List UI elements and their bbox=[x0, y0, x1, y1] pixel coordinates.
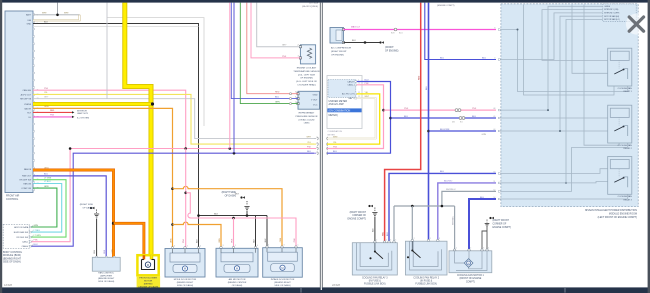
inline connector on BLU bbox=[459, 117, 462, 120]
faint compartment outline bbox=[33, 26, 199, 28]
svg-text:1: 1 bbox=[235, 245, 236, 247]
svg-text:MOTOR FAN (LO): MOTOR FAN (LO) bbox=[604, 18, 620, 21]
wire COMP ON GRN to BCM bbox=[31, 188, 57, 227]
svg-text:REFRIGERANT: REFRIGERANT bbox=[299, 112, 315, 115]
svg-text:WHT: WHT bbox=[64, 12, 69, 14]
svg-text:SIDE OF DASH): SIDE OF DASH) bbox=[274, 284, 290, 287]
svg-text:E28: E28 bbox=[391, 32, 394, 34]
svg-text:GRY: GRY bbox=[282, 45, 287, 47]
wire CAN-H BLU bus bbox=[31, 153, 314, 246]
svg-text:(RIGHT FRONT: (RIGHT FRONT bbox=[350, 212, 367, 214]
svg-text:(ON A/C LIQUID: (ON A/C LIQUID bbox=[298, 118, 314, 121]
junction ORN branch nodes bbox=[171, 187, 174, 190]
wire BLK stub to intake door motor bbox=[266, 216, 268, 248]
svg-text:PNK: PNK bbox=[44, 88, 49, 90]
svg-text:5: 5 bbox=[395, 240, 396, 242]
wire compressor BLK ground bbox=[344, 42, 381, 44]
svg-text:ILL SYSTEM: ILL SYSTEM bbox=[77, 117, 89, 119]
svg-text:ORN: ORN bbox=[112, 249, 114, 254]
svg-text:OF ENGINE): OF ENGINE) bbox=[331, 54, 344, 56]
svg-text:A/C PD CUT: A/C PD CUT bbox=[342, 93, 355, 96]
wire BLU relay control from top bbox=[425, 3, 496, 60]
svg-text:PNK: PNK bbox=[34, 240, 39, 242]
svg-text:PNK: PNK bbox=[404, 108, 409, 110]
svg-text:COOLING FAN MOTOR 1: COOLING FAN MOTOR 1 bbox=[457, 274, 484, 277]
svg-text:(RIGHT FRONT: (RIGHT FRONT bbox=[493, 220, 510, 222]
svg-text:INTERIOR: INTERIOR bbox=[77, 110, 87, 112]
svg-text:VSENS: VSENS bbox=[24, 104, 32, 106]
svg-text:(FRONT: (FRONT bbox=[385, 47, 394, 49]
svg-text:PNK: PNK bbox=[183, 238, 185, 243]
svg-text:COMPT): COMPT) bbox=[466, 281, 475, 283]
svg-text:LINE): LINE) bbox=[304, 123, 310, 125]
wire PNK riser to top edge bbox=[229, 3, 231, 149]
IPDM E/R module box bbox=[501, 4, 638, 207]
wire FAN FB ORN thick bbox=[33, 170, 114, 257]
engine coolant temperature sensor box bbox=[300, 45, 315, 64]
wire BLU riser to top edge bbox=[233, 3, 235, 154]
svg-text:3: 3 bbox=[174, 245, 175, 247]
svg-text:2: 2 bbox=[376, 240, 377, 242]
svg-text:52: 52 bbox=[493, 190, 495, 192]
svg-text:(BEHIND RIGHT: (BEHIND RIGHT bbox=[274, 282, 291, 284]
svg-text:1: 1 bbox=[430, 238, 431, 240]
svg-text:BLU: BLU bbox=[104, 249, 106, 253]
svg-text:51: 51 bbox=[493, 181, 495, 183]
svg-text:BLWR FAN SW: BLWR FAN SW bbox=[14, 231, 28, 234]
svg-text:COOLING FAN: COOLING FAN bbox=[618, 87, 633, 90]
body control module BCM dashed box bbox=[3, 224, 29, 248]
svg-text:A/C COMPRESSOR: A/C COMPRESSOR bbox=[331, 47, 351, 50]
svg-text:1/1528: 1/1528 bbox=[4, 283, 12, 287]
svg-text:RELAY 1: RELAY 1 bbox=[623, 90, 632, 93]
ground marker front of engine bbox=[379, 41, 381, 43]
svg-text:FAN CONTROL: FAN CONTROL bbox=[98, 271, 114, 274]
junction FAN FB node bbox=[112, 222, 115, 225]
svg-text:IGN: IGN bbox=[27, 20, 31, 22]
svg-text:BLK: BLK bbox=[214, 213, 219, 215]
wire PNK stub to air mix motor bbox=[233, 218, 235, 248]
page edge stubs right page bbox=[327, 137, 328, 140]
svg-text:(2.5L: LEFT SIDE: (2.5L: LEFT SIDE bbox=[298, 74, 316, 76]
svg-text:M: M bbox=[184, 267, 186, 271]
svg-text:FRONT BLOWER: FRONT BLOWER bbox=[139, 278, 157, 280]
svg-text:SIDE OF DASH): SIDE OF DASH) bbox=[98, 280, 114, 283]
svg-text:(LEFT FRONT OF ENGINE COMPT): (LEFT FRONT OF ENGINE COMPT) bbox=[598, 216, 638, 219]
svg-text:GRN: GRN bbox=[44, 186, 49, 188]
svg-text:BLU/VIO: BLU/VIO bbox=[444, 181, 453, 183]
wire VIO cooling fan relay 2 control bbox=[438, 183, 496, 241]
svg-text:GND: GND bbox=[313, 94, 318, 96]
svg-text:BLU: BLU bbox=[275, 97, 280, 99]
wire FAN OUT BLU to fan amp bbox=[33, 176, 106, 257]
wire ORN branch to air mix motor bbox=[173, 222, 222, 248]
svg-text:(ON COMBINATION: (ON COMBINATION bbox=[329, 110, 351, 113]
wire compressor clutch MAG bbox=[344, 29, 497, 31]
wire ORN branch to intake door motor bbox=[173, 186, 283, 247]
wire RR DEF SW LT GRN to BCM bbox=[31, 180, 66, 237]
svg-text:PNK: PNK bbox=[282, 56, 287, 58]
svg-text:AND A/C AMP: AND A/C AMP bbox=[329, 103, 345, 106]
wire WHT/BLU bus bbox=[394, 205, 455, 207]
wire FAN ON LT BLU to BCM bbox=[31, 184, 62, 233]
wire WHT route to page edge bbox=[106, 3, 108, 99]
svg-text:CORNER OF: CORNER OF bbox=[352, 215, 366, 217]
svg-text:BATT: BATT bbox=[26, 14, 32, 17]
svg-text:RLY: RLY bbox=[27, 112, 32, 114]
wire CAN-L PNK bus bbox=[70, 148, 314, 150]
svg-text:BLK: BLK bbox=[373, 228, 375, 232]
cooling fan motor ground wires bbox=[482, 231, 487, 251]
svg-text:PNK: PNK bbox=[294, 237, 296, 242]
svg-text:(BEHIND RIGHT: (BEHIND RIGHT bbox=[98, 278, 115, 280]
faint harness outline upper bbox=[107, 18, 204, 126]
svg-text:AIRCON DATA: AIRCON DATA bbox=[14, 226, 29, 229]
svg-text:COMP ON: COMP ON bbox=[21, 188, 31, 190]
svg-text:(KA OR VQ35DE): (KA OR VQ35DE) bbox=[302, 5, 318, 8]
front air control pin stubs bbox=[33, 14, 35, 15]
wire RLY RED to interior lights bbox=[33, 111, 72, 113]
svg-text:3: 3 bbox=[439, 238, 440, 240]
svg-text:49: 49 bbox=[493, 116, 495, 118]
svg-text:GRN: GRN bbox=[482, 134, 487, 136]
svg-text:M: M bbox=[468, 263, 470, 265]
svg-text:48: 48 bbox=[493, 108, 495, 110]
wire VACTR ORN to door motors bbox=[33, 108, 173, 248]
svg-text:SIDE OF DASH): SIDE OF DASH) bbox=[3, 261, 21, 264]
svg-text:BLK: BLK bbox=[196, 239, 198, 243]
wire pressure sensor GRN bbox=[240, 3, 298, 104]
intake door motor bbox=[263, 248, 303, 278]
svg-text:GRN: GRN bbox=[275, 102, 280, 104]
svg-text:ENGINE COMPT): ENGINE COMPT) bbox=[493, 227, 512, 229]
svg-text:MOTOR: MOTOR bbox=[144, 281, 153, 283]
wire RED battery feed from top bbox=[385, 3, 421, 243]
wire BATT WHT right page bbox=[327, 98, 376, 138]
ground right front corner engine compt at relay bbox=[374, 217, 376, 243]
BCM pin stubs bbox=[29, 226, 31, 228]
svg-text:PNK: PNK bbox=[307, 146, 312, 148]
page divider lines bbox=[319, 3, 321, 288]
wire CAN-L PNK right page bbox=[327, 85, 384, 149]
svg-text:ENGINE COMPT): ENGINE COMPT) bbox=[347, 219, 366, 221]
ground right side of dash bbox=[246, 211, 248, 216]
wire IGN WHT jumper loop bbox=[33, 15, 80, 20]
svg-text:GND: GND bbox=[27, 23, 32, 25]
svg-text:(IN FUSE &: (IN FUSE & bbox=[369, 281, 381, 283]
svg-text:WHT: WHT bbox=[306, 136, 311, 138]
cooling fan relay box A bbox=[352, 243, 397, 275]
unified meter connector dashed box bbox=[328, 80, 356, 98]
svg-text:BLU: BLU bbox=[404, 116, 409, 118]
right dark edge bbox=[648, 0, 650, 293]
svg-text:BLK: BLK bbox=[352, 40, 356, 42]
svg-text:AMPLIFIER: AMPLIFIER bbox=[100, 274, 112, 277]
svg-text:RR DEF VB: RR DEF VB bbox=[20, 99, 32, 101]
cooling fan motor 1 box bbox=[449, 251, 492, 273]
inline connector M4-E4 on PNK bbox=[455, 109, 458, 112]
svg-text:VCC: VCC bbox=[313, 104, 318, 106]
wire BLK to fan amp bbox=[96, 219, 98, 258]
svg-text:(FRONT OF ENGINE: (FRONT OF ENGINE bbox=[459, 278, 481, 280]
wire pressure sensor BLU bbox=[231, 3, 298, 99]
svg-text:(RIGHT SIDE: (RIGHT SIDE bbox=[80, 204, 94, 206]
wire ECT GRY bbox=[257, 3, 301, 47]
svg-text:WHT/BLU: WHT/BLU bbox=[446, 189, 456, 191]
cooling fan relay 2 bbox=[608, 105, 632, 143]
svg-text:CAN-SIG: CAN-SIG bbox=[23, 89, 32, 92]
svg-text:FAN FB: FAN FB bbox=[24, 168, 32, 171]
IPDM internal wire mesh bbox=[501, 30, 628, 92]
wire CAN-H BLU right page bbox=[327, 82, 391, 154]
svg-text:MODE DOOR MOTOR: MODE DOOR MOTOR bbox=[174, 279, 197, 281]
svg-text:MOTOR FAN (HI): MOTOR FAN (HI) bbox=[604, 15, 619, 18]
svg-text:BLU: BLU bbox=[307, 151, 311, 153]
svg-text:BLK: BLK bbox=[253, 238, 255, 242]
svg-text:ORN: ORN bbox=[170, 238, 172, 243]
svg-text:CAN-H: CAN-H bbox=[22, 245, 29, 248]
cooling fan relay 3 bbox=[608, 157, 632, 195]
svg-text:CORNER OF: CORNER OF bbox=[493, 224, 507, 226]
wire BLU branch to IPDM pin mid bbox=[429, 130, 497, 132]
svg-text:PNK: PNK bbox=[472, 108, 477, 110]
svg-text:4: 4 bbox=[494, 58, 495, 60]
junction PNK node at mode motor branch bbox=[184, 192, 187, 195]
svg-text:(IN FUSE &: (IN FUSE & bbox=[420, 281, 432, 283]
svg-text:3: 3 bbox=[223, 245, 224, 247]
svg-text:GRY: GRY bbox=[44, 97, 49, 99]
svg-text:RED: RED bbox=[382, 231, 384, 236]
svg-text:3: 3 bbox=[316, 143, 317, 145]
svg-text:LT BLU: LT BLU bbox=[34, 230, 41, 232]
junction CAN-L nodes bbox=[69, 147, 72, 150]
svg-text:PNK: PNK bbox=[231, 238, 233, 243]
svg-text:4: 4 bbox=[316, 147, 317, 149]
svg-text:(RIGHT FRONT: (RIGHT FRONT bbox=[331, 51, 347, 53]
svg-text:3: 3 bbox=[284, 245, 285, 247]
svg-text:VACTR: VACTR bbox=[24, 107, 31, 110]
wire pressure sensor RED bbox=[247, 3, 298, 94]
svg-text:V OUT: V OUT bbox=[311, 99, 318, 101]
wire BLK stub to air mix motor bbox=[255, 216, 257, 249]
svg-text:3: 3 bbox=[390, 240, 391, 242]
svg-text:RELAY 3: RELAY 3 bbox=[623, 198, 632, 201]
svg-text:M: M bbox=[236, 267, 238, 271]
svg-text:1: 1 bbox=[298, 245, 299, 247]
svg-text:FUSIBLE LINK BOX): FUSIBLE LINK BOX) bbox=[415, 284, 437, 286]
svg-text:BLU: BLU bbox=[480, 197, 485, 199]
svg-text:CAN-L: CAN-L bbox=[22, 241, 29, 244]
wire BLU cooling fan relay 3 feed bbox=[389, 173, 496, 242]
svg-text:RED: RED bbox=[419, 75, 421, 80]
svg-text:METER): METER) bbox=[329, 114, 338, 117]
inline connector on MAG wire bbox=[394, 28, 397, 31]
svg-text:BLK: BLK bbox=[44, 21, 48, 23]
bottom navy bar bbox=[0, 287, 650, 293]
junction CAN-H node bbox=[233, 152, 236, 155]
svg-text:5: 5 bbox=[316, 152, 317, 154]
svg-text:M: M bbox=[147, 263, 149, 267]
fan control amplifier box bbox=[92, 257, 120, 271]
svg-text:CYLINDER HEAD): CYLINDER HEAD) bbox=[297, 84, 316, 87]
front blower motor caption highlighted bbox=[137, 276, 161, 288]
svg-text:WHT: WHT bbox=[42, 12, 47, 14]
svg-text:TEMPERATURE SENSOR: TEMPERATURE SENSOR bbox=[293, 70, 320, 73]
svg-text:OF DASH): OF DASH) bbox=[83, 207, 94, 210]
wire RR DEF GRY pale yellow bbox=[33, 94, 314, 144]
unified meter and a/c amp outer box bbox=[327, 76, 362, 129]
close button X icon bbox=[626, 14, 647, 35]
wire BATT WHT horizontal bbox=[33, 14, 80, 16]
svg-text:COOLING FAN: COOLING FAN bbox=[618, 195, 633, 198]
air mix motor bbox=[216, 248, 258, 277]
svg-text:MAG CLT: MAG CLT bbox=[351, 26, 361, 29]
svg-text:ORN: ORN bbox=[219, 238, 221, 243]
svg-text:RELAY 2: RELAY 2 bbox=[623, 147, 632, 150]
wire WHT/BLU stub to relay B bbox=[411, 206, 413, 241]
junction CAN-H node right page bbox=[389, 117, 392, 120]
svg-text:COOLING FAN RELAY 2: COOLING FAN RELAY 2 bbox=[413, 276, 439, 279]
svg-text:SIDE OF DASH): SIDE OF DASH) bbox=[177, 284, 193, 287]
wire ORN thick branch to blower motor bbox=[114, 223, 144, 255]
junction BLK bus nodes bbox=[197, 214, 200, 217]
svg-text:LT GRN: LT GRN bbox=[34, 235, 42, 237]
svg-text:CAN-L: CAN-L bbox=[348, 84, 355, 87]
wire VSENS YEL horizontal from control head bbox=[33, 102, 153, 106]
svg-text:INTAKE DOOR MOTOR: INTAKE DOOR MOTOR bbox=[271, 278, 295, 281]
page edge stubs left page bbox=[314, 138, 316, 140]
svg-text:2: 2 bbox=[470, 248, 471, 250]
wire GND BLK to dash ground bus bbox=[33, 24, 267, 216]
junction BLU relay control node bbox=[427, 130, 430, 133]
svg-text:RED: RED bbox=[50, 110, 55, 112]
wire WHT/BLU net relays to fan motor bbox=[442, 191, 496, 206]
wire WHT/BLU stub to relay A bbox=[393, 206, 395, 243]
svg-text:OF ENGINE): OF ENGINE) bbox=[385, 50, 399, 52]
svg-text:4: 4 bbox=[257, 245, 258, 247]
svg-text:BLK: BLK bbox=[265, 238, 267, 242]
svg-text:4: 4 bbox=[200, 245, 201, 247]
svg-text:RR DEF SW: RR DEF SW bbox=[20, 180, 32, 182]
svg-text:MTRN RLY (ON): MTRN RLY (ON) bbox=[604, 9, 618, 11]
wire PNK branch to air mix and intake motors bbox=[186, 193, 296, 248]
svg-text:3: 3 bbox=[483, 248, 484, 250]
wire PNK drop to mode door motor bbox=[185, 149, 187, 249]
svg-text:ORN: ORN bbox=[44, 106, 49, 108]
cooling fan relay box B bbox=[405, 241, 447, 275]
svg-text:2: 2 bbox=[316, 137, 317, 139]
svg-text:COOLING FAN: COOLING FAN bbox=[618, 144, 633, 147]
svg-text:(BEHIND: (BEHIND bbox=[144, 284, 153, 286]
svg-text:BLU: BLU bbox=[482, 57, 487, 59]
svg-text:ACPD CUT: ACPD CUT bbox=[21, 93, 32, 96]
svg-text:OF DASH): OF DASH) bbox=[225, 195, 237, 198]
wire BLU thick to cooling fan motor bbox=[469, 199, 496, 251]
front air control connector block bbox=[5, 11, 33, 193]
svg-text:COMBINATION: COMBINATION bbox=[328, 130, 343, 133]
svg-text:BLU: BLU bbox=[440, 57, 445, 59]
junction CAN-L node right page bbox=[382, 109, 385, 112]
wire BATT WHT from fuse (vertical drop) bbox=[57, 3, 59, 15]
svg-text:4: 4 bbox=[488, 248, 489, 250]
wire ECT PNK bbox=[251, 3, 300, 58]
wire CAN-L PNK to IPDM bbox=[384, 109, 497, 111]
svg-text:FUSIBLE LINK BOX): FUSIBLE LINK BOX) bbox=[364, 284, 386, 286]
svg-text:BLU: BLU bbox=[440, 171, 445, 173]
svg-text:RR DEF SW: RR DEF SW bbox=[17, 237, 29, 239]
a/c compressor box bbox=[330, 28, 344, 44]
top navy bar bbox=[0, 0, 650, 3]
svg-text:(BEHIND RIGHT: (BEHIND RIGHT bbox=[177, 282, 194, 284]
svg-text:CAN-H: CAN-H bbox=[347, 80, 354, 83]
ground above fan amp bbox=[94, 213, 99, 215]
svg-text:ENGINE COOLANT: ENGINE COOLANT bbox=[297, 67, 317, 70]
wire BLU cooling fan relay control bbox=[428, 3, 430, 242]
svg-text:BLU: BLU bbox=[399, 32, 403, 34]
svg-text:2/1528: 2/1528 bbox=[332, 283, 340, 287]
IPDM CPU dashed box bbox=[603, 4, 636, 22]
svg-text:2: 2 bbox=[414, 238, 415, 240]
svg-text:LT BLU: LT BLU bbox=[44, 181, 51, 183]
svg-text:ORN: ORN bbox=[280, 237, 282, 242]
svg-text:MTRN RLY (OFF): MTRN RLY (OFF) bbox=[604, 13, 619, 15]
svg-text:(4.0L: LEFT SIDE OF: (4.0L: LEFT SIDE OF bbox=[296, 81, 318, 83]
cooling fan relay 1 bbox=[608, 48, 632, 86]
svg-text:54: 54 bbox=[493, 197, 495, 199]
svg-text:COOLING FAN RELAY 3: COOLING FAN RELAY 3 bbox=[362, 276, 388, 279]
svg-text:53: 53 bbox=[493, 172, 495, 174]
svg-text:LAMP 5673: LAMP 5673 bbox=[77, 112, 89, 115]
svg-text:CONTROL: CONTROL bbox=[6, 198, 19, 201]
svg-text:BLU/ORN: BLU/ORN bbox=[440, 129, 450, 131]
IPDM pin stubs bbox=[498, 29, 500, 31]
junction YEL node bbox=[151, 102, 154, 105]
svg-text:BLU: BLU bbox=[387, 232, 389, 236]
wire BLK stub to mode door motor bbox=[198, 216, 200, 249]
svg-text:LT GRN: LT GRN bbox=[44, 177, 52, 179]
svg-text:1: 1 bbox=[456, 248, 457, 250]
svg-text:BLU: BLU bbox=[34, 244, 38, 246]
svg-text:BATT: BATT bbox=[349, 97, 355, 100]
mode door motor bbox=[165, 249, 205, 278]
svg-text:1: 1 bbox=[187, 245, 188, 247]
svg-text:(ENGINE COMPT): (ENGINE COMPT) bbox=[437, 5, 455, 7]
svg-text:WHT/BLU: WHT/BLU bbox=[452, 215, 454, 225]
svg-text:8: 8 bbox=[494, 28, 495, 30]
junction WHT/BLU nodes bbox=[411, 205, 414, 208]
wire ILL MAG to illumination bbox=[33, 116, 72, 118]
svg-text:GRN: GRN bbox=[34, 225, 39, 227]
svg-text:M: M bbox=[281, 266, 283, 270]
wire CAN-SIG PNK to door motors bbox=[33, 90, 186, 148]
wire A/C PD CUT YEL right page bbox=[327, 94, 380, 144]
svg-text:FAN ON: FAN ON bbox=[23, 182, 31, 185]
svg-text:FAN OUT: FAN OUT bbox=[22, 175, 32, 178]
svg-text:CKT 5628: CKT 5628 bbox=[309, 3, 319, 5]
svg-text:BLU: BLU bbox=[426, 86, 428, 90]
svg-text:PNK: PNK bbox=[50, 115, 55, 117]
svg-text:CAN-H: CAN-H bbox=[604, 5, 611, 8]
wire CAN-H BLU to IPDM bbox=[391, 117, 497, 119]
svg-text:1: 1 bbox=[386, 240, 387, 242]
svg-text:RED: RED bbox=[275, 92, 280, 94]
svg-text:(BEHIND CENTER: (BEHIND CENTER bbox=[228, 282, 247, 284]
wire CAN-L PNK riser to BCM bbox=[31, 149, 70, 242]
wire VSENS YEL thick vertical from top bbox=[125, 3, 151, 256]
svg-text:44: 44 bbox=[493, 129, 495, 131]
svg-text:OF ENGINE): OF ENGINE) bbox=[300, 78, 313, 80]
junction BATT node bbox=[56, 14, 59, 17]
